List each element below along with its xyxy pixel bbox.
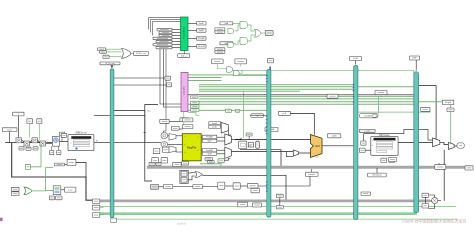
- wire fwd gate out: [240, 70, 242, 73]
- decode blk e: [153, 148, 160, 153]
- wire hazard feedback top 2: [151, 20, 181, 33]
- wire ctrl MemtoReg: [199, 98, 414, 100]
- wire pc clk2: [58, 146, 60, 150]
- wire mem addr line: [364, 133, 404, 135]
- wire bar2 probe link: [279, 198, 281, 206]
- decode label wide: [171, 126, 179, 130]
- from branch flag: [98, 48, 106, 51]
- wire mem green right2: [419, 110, 430, 113]
- wire im out: [94, 141, 110, 143]
- pc top small: [60, 132, 65, 136]
- fwd label 1: [202, 135, 217, 139]
- wire b4c right: [438, 200, 441, 202]
- wire hazard output 4: [188, 45, 197, 47]
- eq flag block: [218, 159, 224, 163]
- bar1 IFID top port: [110, 65, 113, 69]
- and gate fwd upper: [227, 67, 233, 72]
- net label bus mid: [327, 94, 338, 98]
- svg-text:IF_ID_reg: IF_ID_reg: [105, 62, 115, 65]
- svg-text:b: b: [71, 142, 72, 144]
- jr const 1: [11, 187, 19, 191]
- mux forward B: [225, 147, 232, 158]
- svg-text:a1: a1: [184, 136, 186, 138]
- wire hazard feedback top 3: [153, 22, 181, 36]
- wire bottom row 5: [258, 174, 310, 186]
- from jump flag: [99, 51, 106, 54]
- goto wb 1: [92, 199, 99, 203]
- wire sum link 2: [30, 140, 33, 143]
- from MemWb_rd: [156, 40, 172, 43]
- wire wb writeback down: [443, 150, 445, 201]
- wire pc to im: [60, 141, 69, 143]
- label on band mid: [306, 172, 319, 176]
- wire b4c down: [428, 204, 435, 208]
- decode bottom tiny 2: [156, 162, 161, 165]
- wire b4c vert: [424, 197, 426, 203]
- wire wb out: [454, 145, 457, 147]
- wire ctrl ALUControl: [199, 86, 414, 88]
- pc4 near bar4: [421, 107, 430, 111]
- wire regdst drop: [243, 91, 245, 138]
- dm rounded label: [359, 114, 378, 118]
- eq label a: [205, 158, 213, 161]
- jr result label: [65, 187, 76, 192]
- wire ex label1 stub: [251, 115, 271, 117]
- wire ex bot elbow: [286, 152, 293, 157]
- cmp reg b: [181, 177, 187, 182]
- decode blk ra: [160, 119, 169, 123]
- ex compare block: [239, 141, 247, 148]
- svg-text:FlushE: FlushE: [198, 38, 205, 40]
- decode blk d: [182, 125, 193, 129]
- label above IFID bar: [100, 62, 120, 65]
- alu block (orange): [311, 135, 323, 158]
- xor gate branch: [195, 172, 202, 178]
- wire pc clk: [51, 146, 53, 150]
- band2 label right of bar2: [253, 203, 262, 207]
- or gate jr: [24, 187, 32, 195]
- label below band mid: [251, 189, 260, 193]
- ex icon block: [248, 143, 253, 147]
- svg-text:s_axis: s_axis: [364, 131, 370, 133]
- imm label 1: [209, 122, 221, 125]
- pipeline bar EXMEM (teal): [354, 66, 358, 220]
- wire and1 out: [248, 25, 255, 31]
- b4c blk C: [422, 204, 428, 209]
- mux pc select: [40, 141, 46, 146]
- from fwd cond: [212, 59, 224, 64]
- wire goto2 link: [100, 206, 103, 207]
- wire stall bar link: [236, 70, 414, 72]
- imm label 2: [209, 125, 221, 128]
- wire wb green 2 thick: [100, 213, 417, 215]
- wire ctrl RegWrite: [188, 74, 267, 76]
- net label ctrl 2: [191, 105, 200, 108]
- wire imm mux out: [227, 127, 229, 129]
- wire stall input 5: [172, 41, 181, 43]
- wire mem in left: [365, 149, 371, 151]
- pipeline bar IDEX (teal): [267, 70, 271, 218]
- wire jr blue in: [46, 190, 53, 192]
- wire bottom row 4: [240, 185, 247, 187]
- wire dm wdata drop: [378, 96, 380, 113]
- wire rf in lower: [169, 150, 182, 152]
- goto flush 2: [197, 45, 207, 48]
- wire stall input 4: [172, 37, 181, 39]
- svg-text:pcE: pcE: [283, 113, 287, 115]
- ex top small: [246, 133, 252, 136]
- svg-text:PCSrc_sel: PCSrc_sel: [136, 52, 146, 55]
- net label right extra: [447, 108, 454, 112]
- net label ctrl 3: [191, 96, 199, 99]
- wire const drop 2: [29, 124, 31, 138]
- goto stall 2: [197, 29, 207, 32]
- wire bar4 out elbow: [419, 86, 436, 139]
- wire instr label line: [114, 110, 145, 112]
- label sum row c: [33, 147, 38, 150]
- dm left blk 2: [361, 141, 366, 145]
- svg-text:pipeline: pipeline: [177, 222, 186, 226]
- eq label b: [208, 161, 215, 163]
- dm oval: [372, 114, 377, 117]
- right edge bottom label: [465, 166, 473, 170]
- jr tiny b: [56, 196, 62, 200]
- gate decode circle 2: [161, 142, 168, 147]
- icon small jump: [235, 109, 239, 112]
- wire cmp2 b: [233, 42, 236, 44]
- svg-text:StallF: StallF: [199, 22, 205, 25]
- wire branch flag out: [261, 32, 265, 34]
- pc clk label 1: [50, 151, 54, 155]
- wire srcA to ex: [231, 138, 241, 140]
- wire fwd cond drop: [217, 64, 227, 69]
- constant sim_in 1: [157, 28, 172, 31]
- wire branch adder: [240, 150, 281, 167]
- and gate cmp1: [228, 28, 234, 33]
- wire wb green 2 edge: [100, 213, 417, 215]
- from rtD2: [215, 51, 225, 53]
- wire ctrl wb long2: [188, 103, 414, 105]
- wire rf read1: [168, 135, 183, 137]
- data memory block: [371, 137, 398, 156]
- bar1 bottom label: [111, 218, 117, 222]
- wire ctrl regwrite long: [419, 101, 451, 103]
- gate decode circle 1: [161, 133, 168, 139]
- goto branch taken: [265, 31, 273, 36]
- svg-text:hzd_u: hzd_u: [181, 55, 188, 57]
- wire mux to alu: [299, 152, 311, 154]
- wire stall input 6: [172, 44, 181, 46]
- label sum row b: [26, 147, 31, 150]
- svg-text:a3: a3: [184, 152, 186, 154]
- bar3 top arrow: [355, 61, 357, 65]
- dm below blk 2: [389, 158, 395, 162]
- svg-text:d: d: [372, 145, 373, 147]
- controller block (magenta): [181, 72, 188, 111]
- wire ctrl ex dark: [188, 94, 414, 96]
- wire goto3 link: [100, 214, 103, 215]
- svg-text:pc4D: pc4D: [212, 126, 217, 128]
- svg-text:CSDN @中国控制协大业网头大宝贝: CSDN @中国控制协大业网头大宝贝: [402, 218, 467, 224]
- svg-text:rd1E: rd1E: [207, 140, 212, 143]
- wire branch cmp out: [202, 175, 286, 200]
- bottom label c: [193, 185, 203, 189]
- from rsD: [215, 28, 225, 31]
- wire pc writeback thick: [12, 143, 100, 201]
- svg-text:StallD: StallD: [198, 29, 204, 32]
- wire ctrl green elbow: [188, 113, 200, 116]
- svg-text:MW: MW: [413, 58, 417, 60]
- wire ctrl MemWrite0: [188, 80, 222, 82]
- from fwd cond 2: [235, 59, 247, 64]
- wire ctrl Branch: [199, 84, 354, 86]
- dm left blk: [359, 148, 365, 152]
- svg-text:r2: r2: [197, 150, 199, 152]
- constant c2: [27, 119, 33, 124]
- jump target label: [54, 163, 64, 166]
- mux imm select: [221, 122, 228, 133]
- svg-text:ExM: ExM: [353, 58, 357, 60]
- im left const: [61, 133, 66, 137]
- wire flush src 1: [106, 48, 122, 50]
- jr tiny a: [49, 196, 54, 200]
- wire fwd mux2 in a: [217, 149, 225, 151]
- wire instr field bus A: [160, 49, 181, 104]
- wire sum link 1: [22, 140, 25, 142]
- bar3 top label: [350, 57, 362, 61]
- bar2 top icon: [267, 59, 273, 63]
- label eq green: [200, 164, 221, 167]
- wire mem addr drop: [363, 134, 365, 141]
- mux wb 2: [448, 142, 454, 149]
- wire pcblock top: [61, 136, 63, 142]
- bus band EXMEM gray outer: [147, 166, 465, 169]
- wire sum out: [46, 143, 53, 145]
- mux alu src: [293, 150, 298, 156]
- hazard unit block (green): [181, 17, 189, 51]
- mux forward A: [225, 134, 232, 145]
- from ExMem_rd: [153, 37, 172, 40]
- icon house jump: [226, 109, 232, 112]
- wire fwd mux1 in b: [217, 140, 225, 142]
- decode blk c: [182, 118, 193, 122]
- decode blk f: [162, 147, 169, 152]
- svg-text:a2: a2: [184, 144, 186, 146]
- wire mem green right: [358, 111, 414, 113]
- wire ex top hline: [235, 139, 311, 141]
- instruction memory block: [68, 135, 94, 151]
- pc clk label 2: [57, 151, 61, 155]
- wire mem rdata: [398, 141, 433, 143]
- jump shift block: [67, 159, 76, 165]
- ex label 1: [251, 114, 264, 118]
- label sum row a: [19, 147, 24, 150]
- svg-text:immD: immD: [212, 123, 218, 125]
- wire wb green 1: [100, 205, 456, 207]
- svg-text:MemData: MemData: [372, 174, 382, 177]
- wire cmp1 b: [233, 22, 240, 24]
- wire instr up: [145, 105, 158, 143]
- wire flush or output: [131, 52, 134, 54]
- wire boot label link: [9, 132, 11, 143]
- trapezoid decode 1: [169, 134, 176, 141]
- wire band mid label stub: [311, 169, 313, 172]
- wire const drop 3: [38, 124, 40, 140]
- bottom blk e: [233, 183, 240, 189]
- controller input ra: [165, 76, 171, 80]
- wire jr green elbow: [33, 168, 53, 191]
- regfile label below: [182, 162, 189, 166]
- axis label: [359, 129, 375, 132]
- label cond a: [220, 22, 233, 25]
- wire ctrl MemtoReg0: [188, 77, 222, 79]
- branch compare frame: [180, 170, 188, 183]
- wire goto1 link: [99, 200, 101, 202]
- fwd label 4: [202, 152, 217, 155]
- from IfId_rs: [156, 46, 172, 49]
- and gate cmp2: [228, 42, 234, 47]
- wire eq flag elbow: [224, 158, 230, 160]
- wire jump label link: [65, 163, 68, 165]
- wire b4c diag: [429, 195, 435, 197]
- controller label below: [180, 118, 189, 122]
- bottom label f: [247, 184, 258, 188]
- wire hazard output 2: [188, 29, 197, 31]
- bar2 probe top: [276, 194, 283, 197]
- svg-text:HazardUnit: HazardUnit: [183, 27, 186, 38]
- wire fwd gate out2: [236, 75, 267, 77]
- wire pc datapath: [5, 142, 52, 144]
- bottom dark blk: [150, 185, 158, 190]
- wire regwrite drop: [450, 102, 452, 144]
- wire alu result: [322, 145, 354, 147]
- wire dm label link: [376, 168, 378, 173]
- svg-text:RegW: RegW: [445, 102, 451, 104]
- goto pc flush label: [134, 52, 149, 56]
- wire flush src 3: [109, 56, 121, 58]
- wire if instr: [114, 141, 161, 143]
- dm label below band: [368, 173, 387, 177]
- bar2 top blue arrow: [269, 67, 271, 72]
- constant c3: [37, 119, 42, 124]
- wire and2 out: [248, 35, 255, 41]
- net label ctrl 4: [191, 109, 200, 112]
- wire rf out1: [201, 136, 202, 138]
- bar3 port ticks blue: [353, 84, 355, 103]
- wire fwd mux2 in b: [217, 153, 225, 155]
- net label bus right: [375, 91, 387, 95]
- b4c blk A: [422, 193, 428, 197]
- right edge label: [442, 100, 454, 104]
- svg-text:aluM: aluM: [332, 136, 337, 138]
- wire flush src 2: [107, 51, 122, 53]
- left edge purple mark: [0, 218, 3, 221]
- wire ctrl ALUSrc: [199, 88, 354, 90]
- svg-text:Controller: Controller: [183, 86, 186, 95]
- wire wb green 3: [116, 218, 458, 220]
- constant sim_in 3: [159, 34, 172, 36]
- bar4 top arrow: [415, 60, 417, 71]
- goto stall 1: [197, 22, 207, 25]
- cmp reg a: [181, 172, 187, 177]
- goto wb 2: [92, 205, 99, 210]
- wire ctrl label bottom: [183, 122, 185, 125]
- wire ex bot hline: [231, 151, 293, 153]
- sum junction 2: [24, 141, 30, 146]
- wire rf out2: [201, 149, 202, 151]
- wire hazard label stub: [183, 51, 185, 54]
- wire ctrl RegDst: [199, 90, 300, 92]
- wire signext mux out: [228, 128, 231, 136]
- dm below blk 1: [381, 158, 387, 162]
- mux wb 1: [433, 138, 440, 147]
- trapezoid decode 2: [169, 146, 176, 153]
- sum junction 1: [16, 138, 22, 143]
- wire mem bypass: [404, 129, 433, 140]
- and gate upper combine: [240, 22, 248, 29]
- wire bottom row 1: [159, 186, 164, 188]
- band label white: [435, 165, 446, 170]
- bottom blk d: [218, 182, 225, 189]
- ex label right: [328, 134, 341, 138]
- sum junction 3: [32, 138, 38, 143]
- svg-text:ALU: ALU: [315, 145, 320, 148]
- wire band link right: [430, 200, 435, 202]
- label below bar3 left: [361, 192, 371, 195]
- wire alu top drop: [290, 113, 314, 134]
- wire instr down: [145, 111, 152, 182]
- svg-text:rd2E: rd2E: [207, 152, 212, 155]
- controller input rb: [167, 83, 172, 87]
- wire ctrl jump: [188, 109, 267, 111]
- decode bottom tiny 1: [149, 162, 155, 165]
- bottom label g: [238, 202, 248, 207]
- register file block (yellow): [182, 134, 201, 161]
- bar4 top label: [410, 56, 420, 60]
- ex cylinder block: [256, 141, 260, 148]
- wire const drop 1: [17, 116, 19, 138]
- wire cmp in top: [188, 172, 195, 175]
- pc register block: [52, 136, 59, 146]
- wb result label: [457, 143, 464, 148]
- wire stall input 3: [172, 35, 181, 37]
- pipeline bar IFID (teal): [110, 69, 114, 217]
- wire rf in1: [176, 128, 183, 130]
- wire instr field drop C: [164, 49, 167, 135]
- or gate pc flush: [122, 49, 132, 59]
- wire stall input 7: [172, 47, 181, 49]
- wire cmp2 out: [235, 41, 240, 45]
- bar2 port ticks blue: [266, 75, 268, 192]
- and gate lower combine: [240, 38, 248, 45]
- b4c sum circle: [432, 197, 438, 203]
- wire bar1 ctrl a: [114, 77, 165, 79]
- net label ctrl 1: [191, 101, 200, 104]
- svg-text:r1: r1: [197, 137, 199, 139]
- wire regsrc a: [169, 120, 182, 122]
- wire ex top small stub: [248, 136, 250, 140]
- constant sim_in 2: [159, 31, 172, 33]
- regfile label below2: [173, 162, 181, 166]
- aluSrc label ex: [265, 128, 278, 132]
- svg-text:FlushM: FlushM: [198, 46, 205, 48]
- wire cmp in bot: [188, 176, 195, 180]
- goto wb 3: [92, 213, 99, 218]
- wire stall input 2: [172, 32, 181, 34]
- wire hazard output 1: [188, 22, 197, 24]
- svg-text:alu: alu: [316, 157, 319, 159]
- wire instr field bus B: [164, 49, 182, 107]
